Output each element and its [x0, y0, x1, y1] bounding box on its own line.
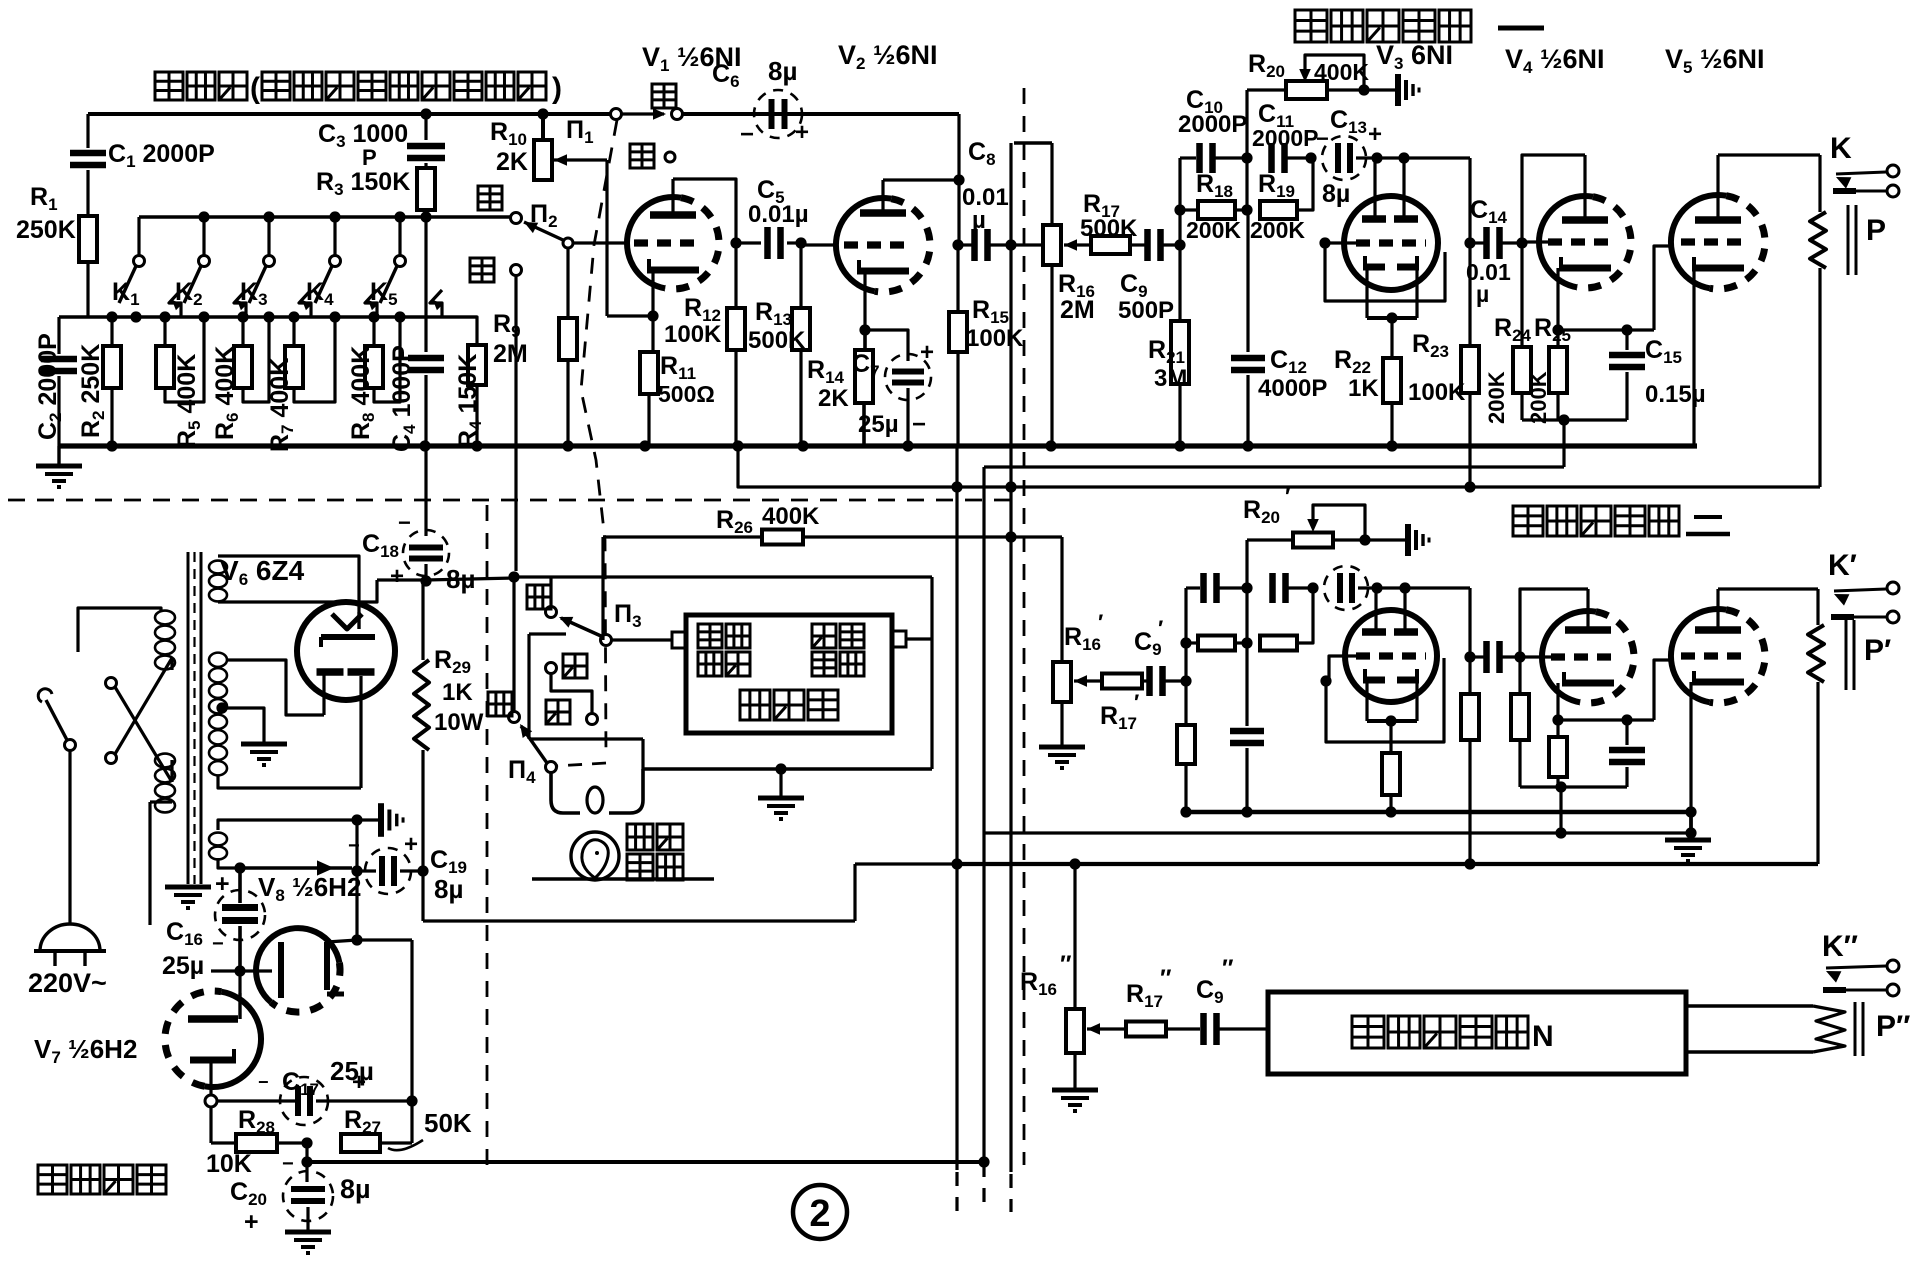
svg-text:V5 ½6NI: V5 ½6NI — [1665, 44, 1765, 77]
label C20 — [230, 1153, 371, 1236]
resistor R23p — [1461, 657, 1479, 864]
wire P primary bottom — [1818, 268, 1821, 487]
switch Kp upper — [1834, 582, 1899, 606]
resistor R11 500 — [640, 316, 658, 446]
resistor R10 2K — [534, 114, 552, 180]
label R13 500K — [748, 298, 806, 354]
input jack connector — [672, 632, 686, 648]
svg-text:100K: 100K — [966, 325, 1024, 352]
wire heater2 bottom — [218, 858, 352, 876]
wire V8 plate line — [357, 938, 412, 941]
resistor R6 — [234, 317, 269, 402]
switch K4 — [315, 217, 378, 317]
node V4 cathode — [1552, 324, 1563, 335]
node bias common2 — [1555, 781, 1566, 792]
node C15 top — [1621, 324, 1632, 335]
wire heater2 top — [218, 820, 357, 830]
svg-text:2M: 2M — [1060, 296, 1095, 324]
recorder box 录音机 — [686, 615, 892, 733]
V4p plate — [1520, 589, 1611, 657]
V2 grid — [801, 241, 912, 248]
capacitor C14 — [1470, 227, 1522, 259]
wire C10C11 to R18R19 — [1245, 158, 1248, 210]
label V2 1/2 6NI — [838, 40, 938, 73]
node bus x1051 — [1045, 440, 1056, 451]
wire heater top to V6 cathode — [218, 556, 359, 612]
label K2 — [175, 278, 203, 309]
wire C9 node up — [1178, 158, 1181, 245]
svg-text:50K: 50K — [424, 1108, 472, 1138]
svg-text:(: ( — [250, 72, 260, 105]
svg-text:P′: P′ — [1864, 634, 1891, 667]
voltage selector X — [106, 658, 173, 782]
svg-text:8µ: 8µ — [768, 56, 797, 86]
wire vertical B dashes — [982, 1163, 985, 1212]
label R11 500 — [658, 352, 715, 407]
node bias common — [1558, 414, 1569, 425]
node C3 top — [420, 108, 431, 119]
svg-text:+: + — [920, 339, 934, 366]
label C6 polarity — [740, 119, 809, 148]
label C15 — [1645, 336, 1706, 408]
svg-text:−: − — [398, 510, 411, 535]
wire switch bus — [139, 215, 516, 218]
node recorder ground — [775, 763, 786, 774]
V7 cathode — [190, 1049, 236, 1095]
ground C20 — [285, 1232, 331, 1253]
wire box out upper — [1686, 1004, 1813, 1007]
capacitor C16 25u — [215, 868, 265, 971]
label K4 — [306, 278, 334, 309]
V8 plate lead — [327, 940, 357, 942]
wire bus left drop — [57, 446, 60, 466]
node R18 left — [1174, 204, 1185, 215]
label R8 400K — [347, 346, 378, 440]
node bus2 R22p — [1385, 806, 1396, 817]
svg-text:10K: 10K — [206, 1150, 252, 1178]
label R12 100K — [664, 294, 722, 348]
node bus x645 — [639, 440, 650, 451]
transformer secondary heater V7V8 — [209, 833, 227, 860]
wire vertical C dashes — [1009, 1174, 1012, 1212]
node K3 top — [263, 211, 274, 222]
resistor R22 1K — [1383, 318, 1401, 446]
switch Kp lower — [1831, 611, 1899, 623]
label C1 2000P — [108, 140, 215, 171]
label R28 — [238, 1106, 275, 1137]
tube V2 — [836, 198, 930, 292]
wire R10 wiper to cathode line — [554, 154, 653, 316]
node K4 top — [329, 211, 340, 222]
wire box out lower — [1686, 1050, 1813, 1053]
capacitor C12p — [1230, 643, 1264, 812]
svg-text:0.15µ: 0.15µ — [1645, 381, 1706, 408]
R20p wiper loop — [1307, 505, 1365, 540]
resistor R24p — [1511, 657, 1529, 787]
switch П3 contact 放1 — [546, 654, 588, 678]
svg-text:µ: µ — [972, 207, 986, 234]
resistor R23 100K — [1461, 243, 1479, 487]
V6 left plate lead — [322, 672, 325, 715]
label C10 2000P — [1178, 86, 1247, 138]
label R27 — [344, 1106, 381, 1137]
V4p cathode — [1558, 672, 1614, 720]
label C2 2000P — [34, 333, 65, 440]
svg-text:R5 400K: R5 400K — [173, 354, 204, 448]
wire vertical A — [955, 446, 958, 1170]
switch K2 — [184, 217, 247, 317]
ground center tap — [241, 744, 287, 765]
node bus2 right — [1685, 806, 1696, 817]
wire Pp primary bottom — [1816, 682, 1819, 864]
svg-text:2K: 2K — [818, 385, 849, 412]
label R7 400K — [266, 358, 297, 452]
node V3 plate2 — [1398, 152, 1409, 163]
switch Kpp upper — [1826, 960, 1899, 983]
svg-text:200K: 200K — [1526, 371, 1551, 424]
node rail K4c — [329, 311, 340, 322]
label Pp — [1864, 634, 1891, 667]
label K3 — [240, 278, 268, 309]
wire V7 cathode down — [211, 1107, 236, 1143]
svg-text:V6 6Z4: V6 6Z4 — [220, 555, 305, 589]
node V8 plate — [351, 934, 362, 945]
label C7 — [852, 339, 934, 438]
linkage dashed — [556, 120, 617, 766]
label P — [1866, 214, 1886, 247]
svg-text:−: − — [212, 933, 224, 955]
tube V3 — [1344, 196, 1438, 290]
svg-text:V4 ½6NI: V4 ½6NI — [1505, 44, 1605, 77]
resistor R3 — [417, 168, 435, 317]
wire center tap ground — [222, 708, 264, 742]
node line833 drop — [1555, 827, 1566, 838]
wire line833 — [984, 831, 1691, 834]
resistor R21p — [1177, 681, 1195, 812]
label R2 250K — [77, 344, 108, 438]
node C8 left — [952, 239, 963, 250]
R16p wiper arrow — [1074, 675, 1102, 687]
capacitor C4 — [408, 317, 444, 446]
node C14 right — [1516, 237, 1527, 248]
node heater2 top — [351, 814, 362, 825]
node K2 top — [198, 211, 209, 222]
divider dashed vertical — [1023, 88, 1026, 1165]
svg-text:2000P: 2000P — [1178, 111, 1247, 138]
svg-text:2M: 2M — [493, 340, 528, 368]
resistor R12 — [727, 243, 745, 446]
resistor R19p — [1260, 588, 1313, 651]
V3 feedback loop — [1325, 243, 1445, 301]
node rail K5c — [394, 311, 405, 322]
node C14 left — [1464, 237, 1475, 248]
wire V4 cath row — [1558, 328, 1654, 331]
svg-text:C4 1000P: C4 1000P — [388, 345, 419, 452]
svg-text:+: + — [390, 563, 404, 590]
R16 wiper arrow — [1064, 239, 1091, 251]
svg-text:−: − — [348, 835, 360, 857]
label 输入插口 — [698, 624, 750, 676]
label 电源部分 — [38, 1165, 166, 1194]
capacitor C15p — [1609, 720, 1645, 787]
resistor R18p — [1186, 636, 1247, 651]
wire mains right — [150, 802, 172, 925]
label R9 2M — [493, 310, 528, 368]
wire line487 — [738, 446, 1820, 487]
R16 top lead — [1050, 143, 1053, 225]
capacitor to chassis — [357, 803, 403, 837]
R16pp wiper arrow — [1087, 1023, 1126, 1035]
svg-text:10W: 10W — [434, 709, 484, 736]
wire plate line down — [380, 940, 412, 1143]
transformer Pp primary — [1808, 625, 1824, 682]
node C10p-C11p — [1241, 582, 1252, 593]
wire line864 — [957, 862, 1818, 866]
resistor R8 — [365, 317, 400, 402]
svg-text:400K: 400K — [1314, 59, 1369, 85]
capacitor C11p — [1273, 573, 1314, 603]
label 选频放大器二 — [1513, 506, 1730, 536]
node rail K3c — [263, 311, 274, 322]
node bus x1392 — [1386, 440, 1397, 451]
label K5 — [370, 278, 398, 309]
wire mid to C20 — [305, 1143, 308, 1182]
capacitor C10p — [1186, 573, 1247, 603]
svg-text:200K: 200K — [1186, 217, 1241, 243]
ground R16pp — [1052, 1090, 1098, 1111]
capacitor C2 — [41, 317, 77, 446]
wire B+ down — [423, 864, 957, 921]
svg-text:V8 ½6H2: V8 ½6H2 — [258, 872, 361, 905]
node C11-C13 — [1305, 152, 1316, 163]
node C18 out — [420, 575, 431, 586]
label C3 1000 P — [318, 120, 408, 170]
svg-text:K″: K″ — [1822, 930, 1858, 963]
switch K lower — [1833, 185, 1899, 197]
node line487 A — [951, 481, 962, 492]
V6 cathode — [321, 612, 375, 647]
node C3 line crossing — [420, 211, 431, 222]
node bus x738 — [732, 440, 743, 451]
wire primary top — [78, 608, 161, 652]
resistor R27 — [341, 1134, 380, 1152]
node C9p out — [1180, 675, 1191, 686]
svg-text:′: ′ — [1098, 610, 1103, 635]
svg-text:25µ: 25µ — [858, 411, 899, 438]
transformer Ppp core — [1855, 1002, 1863, 1056]
node line864 A — [951, 858, 962, 869]
circled 2 mark — [793, 1185, 847, 1239]
label П2 — [530, 200, 558, 231]
ground R16p — [1039, 747, 1085, 768]
tube V3p — [1345, 610, 1437, 702]
label П4 — [508, 756, 536, 787]
node rail R7 — [288, 311, 299, 322]
box 选频放大器N — [1268, 992, 1686, 1074]
switch K upper — [1836, 165, 1899, 189]
resistor R14 2K — [855, 330, 873, 446]
capacitor C13p — [1324, 566, 1377, 610]
svg-text:V7 ½6H2: V7 ½6H2 — [34, 1034, 137, 1067]
svg-text:µ: µ — [1476, 281, 1489, 307]
label 选频放大器N text — [1352, 1016, 1554, 1053]
label R29 — [434, 646, 484, 736]
tube V7 — [165, 991, 261, 1087]
wire П2 to V1 grid — [573, 241, 627, 244]
label R25 200K — [1526, 371, 1551, 424]
svg-text:3M: 3M — [1154, 365, 1187, 392]
switch П3 contact 放2 — [546, 700, 598, 725]
label R6 400K — [211, 346, 242, 440]
svg-text:2K: 2K — [496, 148, 528, 176]
label R23 100K — [1408, 330, 1466, 406]
wire bus2 — [1186, 810, 1691, 814]
label R17 500K — [1080, 190, 1138, 242]
transformer primary lower — [155, 754, 175, 813]
resistor R18 200K — [1180, 201, 1247, 219]
svg-text:′: ′ — [1134, 690, 1139, 715]
capacitor C3 — [407, 114, 445, 168]
label C5 0.01u — [748, 176, 809, 228]
wire R20 to ground — [1364, 88, 1398, 91]
node R20 right — [1358, 84, 1369, 95]
capacitor C8 — [958, 229, 1011, 261]
potentiometer R16pp — [1066, 864, 1084, 1088]
V3p cathodes — [1363, 669, 1419, 721]
label C4 1000P — [388, 345, 419, 452]
capacitor C12 4000P — [1231, 210, 1265, 446]
wire B+ line recorder — [514, 575, 932, 578]
switch П2 contact 录 — [478, 186, 522, 224]
wire Pp primary top — [1816, 589, 1819, 625]
wire П3 to input jack — [611, 638, 672, 641]
label C9p — [1134, 616, 1163, 659]
node V3 cathode common — [1386, 312, 1397, 323]
label C18 — [362, 510, 475, 594]
wire B+ to recorder line — [426, 578, 514, 580]
label R24 — [1494, 314, 1532, 345]
tube V4 — [1539, 196, 1631, 288]
R20 wiper loop — [1299, 55, 1364, 90]
resistor R22p — [1382, 721, 1400, 812]
resistor R2 — [103, 317, 121, 446]
potentiometer R20p — [1247, 533, 1365, 589]
wire 放 link — [551, 673, 592, 713]
svg-text:500P: 500P — [1118, 297, 1174, 324]
svg-text:V2 ½6NI: V2 ½6NI — [838, 40, 938, 73]
wire primary taps — [170, 658, 173, 782]
node C16 top — [234, 862, 245, 873]
svg-text:C2 2000P: C2 2000P — [34, 333, 65, 440]
node V2 plate — [953, 174, 964, 185]
node rail K1 — [130, 311, 141, 322]
svg-text:100K: 100K — [1408, 379, 1466, 406]
node bus x477 — [471, 440, 482, 451]
label Kp — [1828, 549, 1857, 582]
V7 cathode junction — [205, 1095, 217, 1107]
node V3 grid — [1319, 237, 1330, 248]
svg-text:N: N — [1532, 1020, 1554, 1053]
switch П1 contact 放 — [630, 144, 675, 168]
potentiometer R16p — [1053, 662, 1071, 745]
node bus x908 — [902, 440, 913, 451]
switch П4 blade — [520, 724, 557, 773]
node K5 top — [394, 211, 405, 222]
label C16 — [162, 870, 230, 980]
wire V4p cath row — [1558, 718, 1654, 721]
resistor R26 400K — [603, 530, 1062, 646]
wire R20p ground — [1365, 538, 1408, 541]
wire HV top to plate — [226, 660, 324, 715]
capacitor C6 8u — [754, 90, 802, 138]
V5 cathode — [1692, 257, 1744, 446]
svg-text:−: − — [1316, 126, 1329, 151]
resistor R4 — [426, 317, 486, 446]
tube V8 — [256, 928, 340, 1012]
resistor R1 — [79, 216, 97, 317]
switch mains — [38, 689, 75, 925]
wire main bus — [59, 443, 1697, 448]
node bus x1180 — [1174, 440, 1185, 451]
node V2 cathode — [859, 324, 870, 335]
wire bias drop2 — [1559, 787, 1562, 833]
label K — [1830, 132, 1852, 165]
transformer Pp core — [1846, 620, 1854, 690]
wire V3p out down — [1468, 588, 1471, 657]
label C11 2000P — [1252, 100, 1319, 151]
V4 grid — [1522, 238, 1616, 245]
switch П1 — [611, 108, 683, 120]
label 10K — [206, 1150, 252, 1178]
node V3p plate2 — [1399, 582, 1410, 593]
plug 220V — [34, 924, 106, 966]
resistor R28 10K — [236, 1134, 307, 1152]
tube V6 — [297, 602, 395, 700]
svg-text:R7 400K: R7 400K — [266, 358, 297, 452]
divider dashed horizontal — [8, 499, 1013, 502]
node line1162 B — [978, 1156, 989, 1167]
resistor R19 200K — [1260, 158, 1313, 219]
V3p feedback loop — [1326, 658, 1444, 742]
svg-text:″: ″ — [1160, 965, 1172, 992]
node rail K2c — [198, 311, 209, 322]
node R18p left — [1180, 637, 1191, 648]
svg-text:K′: K′ — [1828, 549, 1857, 582]
svg-text:8µ: 8µ — [1322, 180, 1350, 208]
switch П3 blade — [559, 617, 612, 646]
resistor R17 500K — [1091, 236, 1146, 254]
svg-text:−: − — [258, 1072, 269, 1092]
resistor R29 1K 10W — [414, 581, 429, 868]
switch K1 — [119, 217, 182, 317]
wire 放 ground link — [529, 634, 643, 739]
label V4 1/2 6NI — [1505, 44, 1605, 77]
label Kpp — [1822, 930, 1858, 963]
svg-text:8µ: 8µ — [434, 874, 463, 904]
V5 grid — [1681, 238, 1749, 245]
wire RC ladder rail — [59, 315, 477, 318]
wire vertical A dashes — [955, 1172, 958, 1212]
svg-text:R8 400K: R8 400K — [347, 346, 378, 440]
V4p grid — [1520, 653, 1619, 660]
node V3p grid — [1320, 675, 1331, 686]
svg-text:′: ′ — [1285, 484, 1290, 509]
label C14 0.01u — [1466, 196, 1511, 307]
label R16pp — [1020, 951, 1072, 999]
wire V5 grid feed — [1654, 246, 1672, 330]
label R10 2K — [490, 118, 528, 176]
resistor R25p — [1549, 720, 1567, 787]
